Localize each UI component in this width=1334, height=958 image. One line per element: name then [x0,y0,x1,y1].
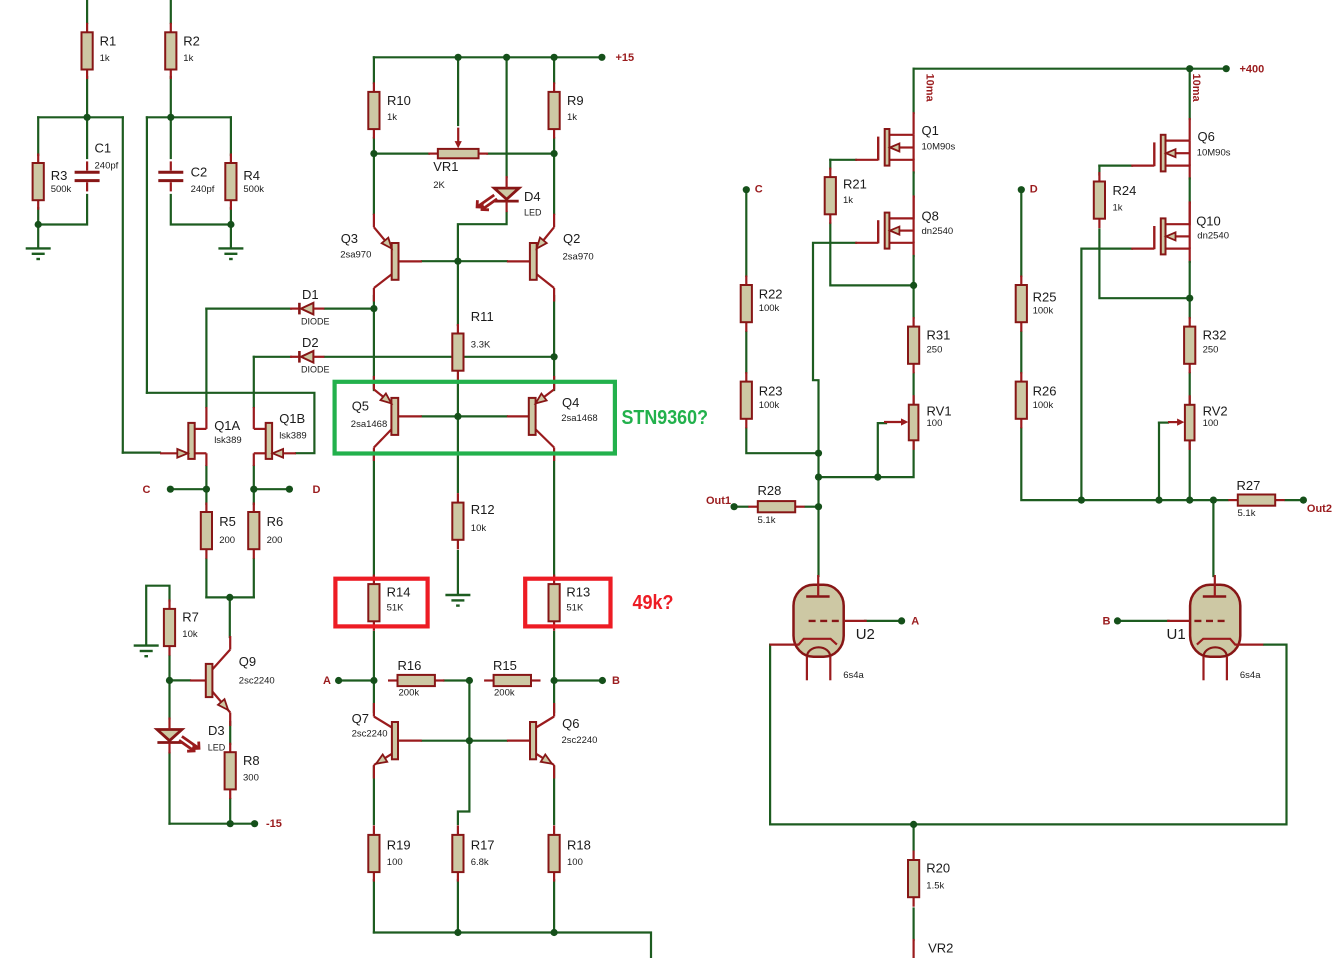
wire R3 top [37,117,39,155]
wire R8 bottom [229,799,231,824]
resistor R2 [170,23,172,33]
svg-text:DIODE: DIODE [301,317,330,327]
wire VR2comp lead [912,940,914,958]
svg-text:lsk389: lsk389 [214,435,241,446]
transistor Q2 [553,214,555,228]
svg-text:dn2540: dn2540 [1197,230,1229,241]
resistor R11 [457,324,459,334]
terminal A [335,677,342,684]
wire Q9 base [170,679,191,681]
wire R9 top [553,57,555,83]
ground under R12 [445,594,470,596]
svg-text:RV1: RV1 [927,403,952,418]
svg-text:Q10: Q10 [1196,213,1221,228]
potentiometer RV1 [912,395,914,405]
svg-text:2sc2240: 2sc2240 [239,675,275,686]
terminal B [599,677,606,684]
wire A terminal [339,679,374,681]
svg-text:D2: D2 [302,335,319,350]
terminal +15 [598,54,605,61]
junction +400 rail [1186,65,1193,72]
junction top rail D4 [503,54,510,61]
svg-text:+15: +15 [616,52,635,64]
svg-text:D3: D3 [208,723,225,738]
svg-text:Q8: Q8 [922,209,939,224]
resistor R21 [829,168,831,178]
svg-text:lsk389: lsk389 [279,430,306,441]
led D4 [494,188,519,199]
capacitor C2 [158,171,183,174]
svg-text:2K: 2K [433,180,445,191]
wire Q4 collector down [553,455,555,576]
svg-text:Q9: Q9 [239,654,256,669]
wire D3 top [168,680,170,718]
svg-text:1k: 1k [387,112,397,123]
junction R24 Q10 [1186,295,1193,302]
annotation red box R14 [335,579,427,627]
svg-text:R16: R16 [398,658,422,673]
svg-text:49k?: 49k? [633,592,674,614]
terminal D [286,486,293,493]
svg-text:R12: R12 [471,502,495,517]
svg-text:2sa1468: 2sa1468 [351,419,387,430]
svg-text:D: D [313,484,321,496]
junction R28 node [815,503,822,510]
resistor R31 [912,317,914,327]
wire Q2 emitter up [553,154,555,214]
svg-text:Q6: Q6 [562,716,579,731]
svg-text:51K: 51K [566,603,584,614]
junction bottom R17 [454,929,461,936]
wire cascode mid [912,173,914,197]
svg-text:R17: R17 [471,838,495,853]
terminal +400 [1223,65,1230,72]
junction D terminal [1018,186,1025,193]
wire R5 top [205,489,207,504]
svg-text:C: C [755,184,763,196]
svg-text:R9: R9 [567,93,584,108]
wire C terminal [170,488,206,490]
junction D1 [370,305,377,312]
svg-text:100: 100 [1203,418,1219,429]
svg-text:Q5: Q5 [352,399,369,414]
svg-text:R7: R7 [182,610,199,625]
svg-text:Q7: Q7 [352,711,369,726]
junction B row right [551,677,558,684]
wire Q5 emitter up [373,309,375,390]
svg-text:B: B [612,675,620,687]
resistor R15 [484,679,494,681]
wire mid to R17 [458,741,470,824]
mosfet Q8 [889,217,913,219]
svg-text:200k: 200k [494,688,515,699]
resistor R5 [205,503,207,513]
svg-text:STN9360?: STN9360? [622,407,709,429]
jfet Q1A [195,428,207,430]
svg-text:R23: R23 [759,384,783,399]
wire R3 bottom [37,208,39,225]
wire Q7 emitter down [373,767,375,824]
svg-text:10ma: 10ma [924,74,936,103]
svg-text:C2: C2 [191,165,208,180]
junction U1 plate bus [1210,497,1217,504]
svg-text:R28: R28 [758,483,782,498]
potentiometer VR1 [428,153,438,155]
svg-text:R32: R32 [1203,328,1227,343]
wire R4 bottom [230,208,232,225]
svg-text:100k: 100k [759,400,780,411]
wire Q10 source red [1189,249,1191,262]
mosfet Q6 hv [1166,140,1190,142]
svg-text:R4: R4 [243,168,260,183]
svg-text:RV2: RV2 [1203,404,1228,419]
svg-text:R15: R15 [493,658,517,673]
junction R7-Q9 [166,677,173,684]
wire Q1A gate [123,452,160,454]
junction top rail R9 [551,54,558,61]
junction A row mid [466,677,473,684]
wire R24 bottom to Q10 node [1099,230,1189,299]
wire D3 bottom [168,753,170,824]
wire Out1 [734,506,747,508]
svg-text:R25: R25 [1033,290,1057,305]
svg-text:100: 100 [927,418,943,429]
wire RV2 wiper lead [1159,422,1168,424]
wire R21 bottom to Q8 node [830,224,913,286]
wire R28 to node [806,506,819,508]
wire Q10 source down [1189,262,1191,298]
resistor R25 [1020,276,1022,286]
wire VR1 wiper feed [457,57,459,125]
svg-text:100: 100 [567,857,583,868]
svg-text:2sa970: 2sa970 [340,250,371,261]
potentiometer RV2 [1189,395,1191,405]
wire D2 right [325,356,554,358]
wire R9 VR1 node [553,138,555,154]
wire to Q1B gate [147,393,315,453]
wire RV2 wiper down [1158,423,1160,501]
wire U2 cathode down [770,645,914,825]
svg-text:10k: 10k [471,523,487,534]
wire R32 to RV2 [1189,373,1191,406]
wire U1 plate feed [1212,500,1214,576]
junction RV2 bus [1186,497,1193,504]
wire U2 grid to A [865,620,902,622]
svg-text:Q1A: Q1A [214,418,240,433]
junction R8 -15 [227,820,234,827]
wire R14 bottom [373,632,375,681]
svg-text:R10: R10 [387,93,411,108]
wire RV1 bottom [819,440,914,478]
wire Q7Q6 base mid [468,681,470,741]
svg-text:500k: 500k [51,184,72,195]
wire Q9 collector up [229,597,231,637]
wire R20 bottom green [912,909,914,941]
wire R6 bottom [253,559,255,597]
wire node R1-C1 [38,116,123,118]
wire A row mid [444,679,469,681]
wire node1 down [122,117,124,452]
svg-text:A: A [323,675,331,687]
svg-text:R20: R20 [926,860,950,875]
svg-text:R6: R6 [267,514,284,529]
svg-text:+400: +400 [1240,63,1265,75]
svg-text:10k: 10k [182,629,198,640]
wire R24 top [1098,166,1100,175]
wire cathode bus [914,645,1287,825]
junction base Q7Q6 [466,737,473,744]
resistor R9 [553,82,555,92]
ground at R7 [134,644,159,646]
wire bracket to Q9 [206,596,253,598]
wire D term down [1020,190,1022,276]
wire R8 emitter [229,722,231,744]
svg-text:10M90s: 10M90s [922,141,956,152]
svg-text:C: C [143,484,151,496]
junction RV2 wiper bus [1155,497,1162,504]
wire R26 to bus [1021,429,1213,501]
svg-text:R3: R3 [51,168,68,183]
resistor R17 [457,825,459,835]
terminal Out1 [731,503,738,510]
svg-text:U1: U1 [1167,626,1186,643]
wire Q10 to R32 [1189,298,1191,317]
svg-text:100k: 100k [1033,400,1054,411]
svg-text:250: 250 [927,345,943,356]
ground under R4 [218,247,243,249]
svg-text:51K: 51K [387,603,405,614]
svg-text:3.3K: 3.3K [471,340,491,351]
wire R22-R23 [745,332,747,373]
wire Q6 emitter down [553,767,555,824]
svg-text:250: 250 [1203,345,1219,356]
wire RV1 wiper down [878,423,886,477]
junction A row left [370,677,377,684]
led D3 [157,730,182,741]
resistor R22 [745,276,747,286]
wire +400 rail [914,68,1227,70]
svg-text:Q2: Q2 [563,231,580,246]
junction RV1 wiper [874,474,881,481]
svg-text:100k: 100k [759,303,780,314]
svg-text:dn2540: dn2540 [922,226,954,237]
diode D1 [301,303,313,315]
wire Q7 base [422,740,470,742]
capacitor C1 [75,171,100,174]
wire U2 plate feed [817,507,819,576]
wire Q8 to R31 [912,285,914,317]
svg-text:5.1k: 5.1k [758,515,776,526]
terminal A tube [898,617,905,624]
junction bottom R18 [551,929,558,936]
wire node2 down [146,117,148,393]
svg-text:R19: R19 [387,838,411,853]
wire C2 top [170,117,172,158]
wire Q3 collector down [373,296,375,309]
resistor R28 [748,506,758,508]
svg-text:500k: 500k [243,184,264,195]
wire R17 bottom [457,880,459,933]
wire Q1 drain up [912,69,914,113]
junction Q9 collector [226,594,233,601]
svg-text:200: 200 [267,535,283,546]
wire Q6 collector [553,681,555,713]
svg-text:R26: R26 [1033,384,1057,399]
junction RV1 bus [815,474,822,481]
svg-text:240pf: 240pf [191,184,215,195]
wire Q7 collector [373,681,375,713]
wire R21 top [829,160,831,169]
wire D4 top [506,57,508,177]
svg-text:6s4a: 6s4a [843,670,864,681]
wire R2 to node [170,77,172,117]
terminal Out2 [1300,497,1307,504]
svg-text:VR2: VR2 [928,941,953,956]
svg-text:100k: 100k [1033,305,1054,316]
mosfet Q1 [889,134,913,136]
resistor R7 [168,599,170,609]
junction R3 gnd node [35,221,42,228]
wire RV2 bottom [1189,440,1191,501]
svg-text:R14: R14 [387,585,411,600]
resistor R8 [229,743,231,753]
wire R5 bottom [205,559,207,597]
wire Q4 emitter up [553,357,555,390]
wire cascode mid red1 [912,160,914,173]
wire Q1A source down [205,466,207,489]
wire D2 left [254,356,291,358]
svg-text:10M90s: 10M90s [1197,147,1231,158]
wire C1 bottom to gnd node [38,195,87,225]
svg-text:R24: R24 [1113,183,1137,198]
wire Q8 gate down [813,243,856,453]
junction R23 node [815,450,822,457]
svg-text:D: D [1030,184,1038,196]
junction R21 Q8 [910,282,917,289]
junction R4 gnd node [227,221,234,228]
wire -15 rail [170,823,255,825]
svg-text:R22: R22 [759,287,783,302]
svg-text:6s4a: 6s4a [1240,670,1261,681]
wire Q2 collector down [553,296,555,357]
junction R10 VR1 [370,150,377,157]
transistor Q3 [373,214,375,228]
svg-text:2sc2240: 2sc2240 [562,735,598,746]
resistor R10 [373,82,375,92]
svg-text:Q1: Q1 [922,123,939,138]
svg-text:1k: 1k [567,112,577,123]
wire R27 left [1213,499,1227,501]
svg-text:VR1: VR1 [433,159,458,174]
resistor R19 [373,825,375,835]
wire Q6m drain up [1189,69,1191,119]
resistor R4 [230,154,232,164]
svg-text:R21: R21 [843,177,867,192]
terminal C [167,486,174,493]
svg-text:2sa970: 2sa970 [563,251,594,262]
wire cascode mid red2 [912,197,914,219]
resistor R27 [1228,499,1238,501]
resistor R14 [373,575,375,585]
wire cascode mid right [1189,179,1191,203]
svg-text:R18: R18 [567,838,591,853]
svg-text:Q6: Q6 [1198,129,1215,144]
wire C1 top [86,117,88,158]
svg-text:1k: 1k [183,53,193,64]
svg-text:LED: LED [208,743,226,753]
junction D node [250,486,257,493]
junction R2 node [167,114,174,121]
resistor R24 [1098,172,1100,182]
wire R31 to RV1 [912,373,914,406]
junction C terminal [743,186,750,193]
diode D2 [301,351,313,363]
svg-text:U2: U2 [856,626,875,643]
wire node down1 [817,453,819,507]
triode U1 [1190,585,1240,657]
wire Q1 gate green [830,159,856,161]
wire Q5 collector down [373,455,375,576]
wire U1 grid to B [1118,620,1169,622]
wire Q8 source down [912,256,914,285]
resistor R13 [553,575,555,585]
resistor R18 [553,825,555,835]
svg-text:R31: R31 [927,328,951,343]
junction top rail VR1 [455,54,462,61]
svg-text:200k: 200k [399,688,420,699]
svg-text:10ma: 10ma [1190,74,1202,103]
svg-text:R1: R1 [100,34,117,49]
svg-text:Q3: Q3 [341,231,358,246]
wire node R2-C2 [147,116,231,118]
wire Q3 base [422,260,458,262]
resistor R20 [912,851,914,861]
wire R20 top [912,824,914,849]
transistor Q4 [553,376,555,390]
svg-text:1k: 1k [1113,202,1123,213]
wire Q1B source down [253,466,255,489]
wire cascode mid right red1 [1189,166,1191,179]
junction D2 [551,353,558,360]
wire D1 right [325,308,374,310]
wire C term down [745,190,747,276]
svg-text:DIODE: DIODE [301,364,330,374]
svg-text:-15: -15 [266,818,282,830]
junction Q10 gate bus [1078,497,1085,504]
wire R6 top [253,489,255,504]
wire R25-R26 [1020,332,1022,373]
svg-text:Out1: Out1 [706,495,731,507]
svg-text:LED: LED [524,208,542,218]
wire R3 gnd stem [37,225,39,248]
mosfet Q10 [1166,223,1190,225]
svg-text:B: B [1103,616,1111,628]
svg-text:R27: R27 [1237,478,1261,493]
transistor Q7 [373,765,375,779]
triode U2 [794,585,844,657]
svg-text:C1: C1 [95,141,112,156]
annotation green box STN9360 [335,382,615,454]
wire Q1B drain up [253,357,255,407]
svg-text:Out2: Out2 [1307,503,1332,515]
jfet Q1B [254,428,266,430]
svg-text:2sa1468: 2sa1468 [561,413,597,424]
resistor R23 [745,372,747,382]
svg-text:1.5k: 1.5k [926,880,944,891]
wire R18 bottom [553,880,555,933]
resistor R1 [86,23,88,33]
svg-text:100: 100 [387,857,403,868]
